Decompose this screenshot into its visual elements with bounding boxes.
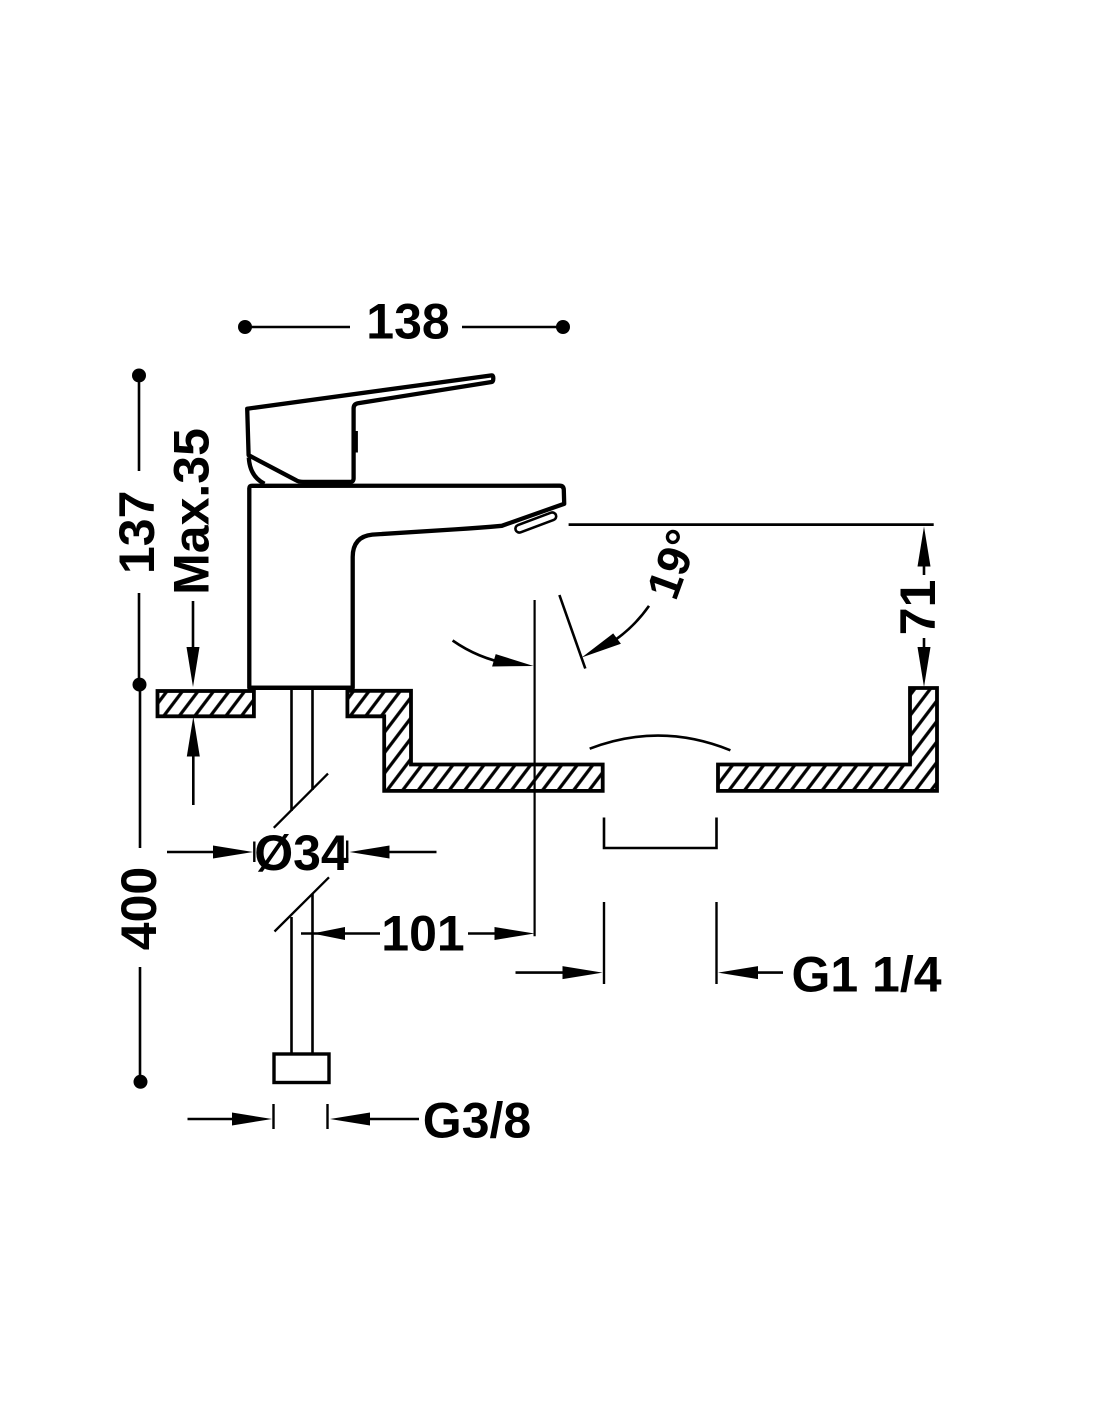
svg-text:137: 137 xyxy=(109,491,165,574)
svg-text:Max.35: Max.35 xyxy=(163,428,219,595)
svg-text:G1 1/4: G1 1/4 xyxy=(791,947,941,1003)
svg-text:400: 400 xyxy=(111,867,167,950)
svg-text:G3/8: G3/8 xyxy=(423,1093,531,1149)
svg-text:71: 71 xyxy=(890,580,946,636)
svg-text:Ø34: Ø34 xyxy=(254,825,349,881)
svg-text:101: 101 xyxy=(381,906,464,962)
svg-text:138: 138 xyxy=(366,294,449,350)
